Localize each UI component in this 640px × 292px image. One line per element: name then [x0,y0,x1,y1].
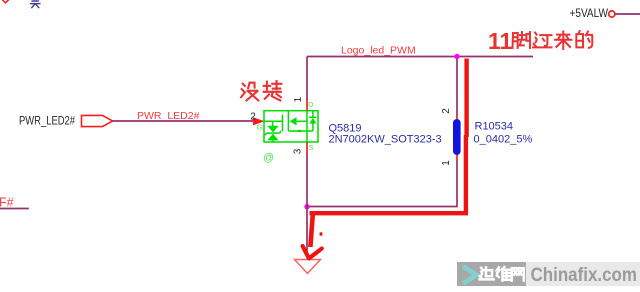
annotation thick red horizontal [310,211,469,215]
pin 3 stub (source) [306,142,308,155]
wire Logo_led_PWM horizontal [307,56,533,58]
svg-text:+5VALW: +5VALW [570,8,609,20]
wire branch to resistor [456,57,458,116]
off-page connector tip (top-left) [2,0,10,3]
wire to +5VALW [615,13,640,15]
resistor R10534 body [453,119,461,155]
svg-text:2N7002KW_SOT323-3: 2N7002KW_SOT323-3 [329,134,442,146]
svg-text:11: 11 [488,28,513,54]
wire resistor to bottom rail [307,160,457,207]
resistor R10534 pin 2 stub [456,115,458,120]
svg-text:D: D [308,100,314,109]
svg-text:Logo_led_PWM: Logo_led_PWM [341,45,416,57]
wire stub (left edge) [0,208,29,210]
wire PWR_LED2# [113,120,256,122]
svg-text:Chinafix.com: Chinafix.com [531,265,638,286]
ground symbol [295,260,321,274]
annotation arrow head [303,246,322,258]
annotation thick red vertical [464,59,469,214]
pin 1 stub (drain) [306,100,308,111]
junction node bottom [304,204,309,209]
port symbol PWR_LED2# [82,115,113,126]
watermark 迅维网 Chinafix.com [457,262,526,286]
annotation stray dot [320,232,323,235]
svg-text:@: @ [263,152,274,164]
power node circle [609,11,615,17]
svg-text:F#: F# [0,196,14,210]
junction node [454,54,459,59]
wire Logo_led_PWM left vertical [306,57,308,101]
svg-text:3: 3 [293,148,304,154]
transistor Q5819 symbol [264,111,318,142]
text 关 (clipped) [31,0,40,8]
annotation arrow shaft [310,214,312,247]
annotation text 没装 [241,83,258,101]
svg-text:1: 1 [441,160,452,166]
svg-text:2: 2 [250,112,256,123]
gate wire arrowhead [253,117,265,125]
svg-text:R10534: R10534 [475,121,514,133]
svg-text:1: 1 [293,96,304,102]
svg-text:PWR_LED2#: PWR_LED2# [19,116,75,128]
svg-text:G: G [257,123,263,132]
resistor R10534 pin 1 stub [456,154,458,160]
wire transistor source down to ground [306,154,308,258]
svg-text:2: 2 [441,108,452,114]
svg-text:S: S [309,143,314,152]
svg-text:0_0402_5%: 0_0402_5% [474,134,533,146]
